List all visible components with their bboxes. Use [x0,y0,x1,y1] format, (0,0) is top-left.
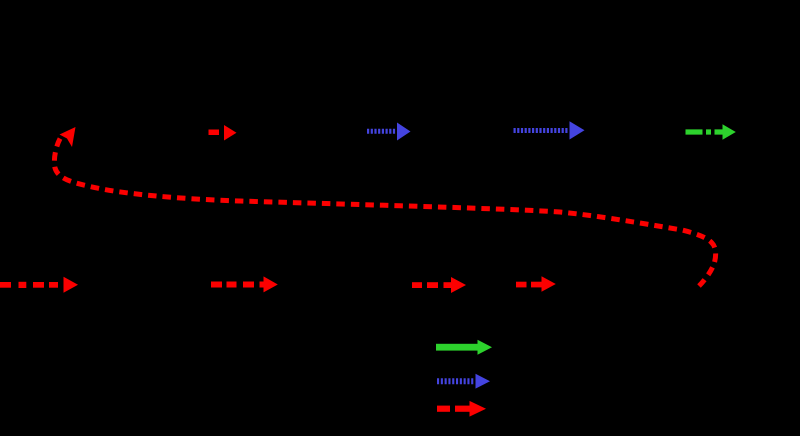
legend arrow 3: red dashed arrow [437,401,486,417]
bottom row arrow 1: red dashed arrow from left edge [0,277,78,293]
bottom row arrow 2: red dashed arrow [211,276,278,292]
legend arrow 1: solid green arrow [436,340,492,355]
top row arrow 2: blue dotted arrow [367,123,411,141]
top row arrow 3: blue dotted arrow (longer) [514,121,585,139]
legend arrow 2: blue dotted arrow [437,374,490,389]
feedback arrowhead (points up-right) [60,127,76,147]
top row arrow 1: short red dashed arrow [209,125,237,141]
feedback arrow: large red dashed curve from bottom-right node back to top-left node [54,127,715,286]
bottom row arrow 4: red dashed arrow [516,276,556,292]
bottom row arrow 3: red dashed arrow [412,277,466,293]
top row arrow 4: green dash-dot arrow [686,124,736,140]
